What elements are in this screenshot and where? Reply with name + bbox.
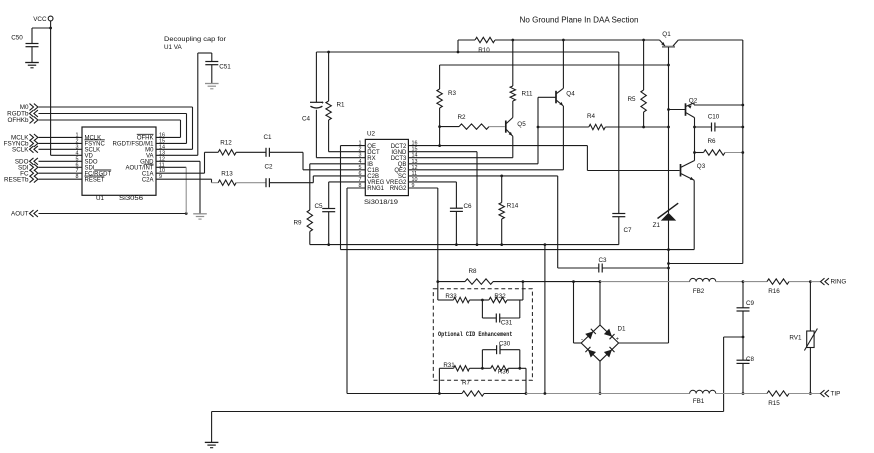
svg-text:+: + [321,101,324,107]
diode bridge D1 [581,325,618,361]
wire Q2 base [669,109,686,111]
svg-text:VREG: VREG [367,180,384,186]
svg-text:R11: R11 [521,91,533,98]
wire U2 pin4 IB to R9 [310,163,366,165]
wire RGDTb to U1 pin15 [39,113,187,115]
svg-text:-: - [581,337,583,343]
svg-text:C10: C10 [708,114,720,121]
ferrite bead FB2 [690,278,716,281]
capacitor C6 [450,207,463,209]
resistor R8 [438,281,465,283]
ground below C51 [205,83,219,85]
resistor R13 [218,180,236,185]
wire IGND riser to TIP line [544,245,546,394]
svg-text:R9: R9 [293,219,302,226]
svg-text:C3: C3 [598,257,607,264]
node C9/C8 midpoint to ground return [742,336,745,339]
svg-text:R8: R8 [468,268,477,275]
wire R15 to TIP [789,393,821,395]
wire top node RX/DCT to C7 [316,51,618,53]
wire RNG2 riser to R33 [437,282,439,300]
svg-text:VREG2: VREG2 [386,180,407,186]
node VCC/C50 junction [49,27,52,30]
svg-text:C30: C30 [499,340,511,347]
svg-text:R5: R5 [627,96,636,103]
resistor R7 [347,393,439,395]
resistor R9 [307,210,312,232]
svg-text:RING: RING [831,278,847,285]
wire R6 net to riser junction [669,263,743,265]
svg-text:VCC: VCC [33,16,47,23]
svg-text:FB1: FB1 [693,398,705,405]
svg-text:R1: R1 [336,102,345,109]
wire R12 to C1 [236,151,266,153]
svg-text:R15: R15 [768,400,780,407]
bridge diode bottom-right [604,350,612,358]
svg-text:C7: C7 [623,227,632,234]
power rail VCC terminal [48,16,53,21]
transistor Q3 [680,164,682,177]
svg-text:Decoupling cap for: Decoupling cap for [164,36,226,43]
wire U2 pin11 SC to C3 [408,175,557,177]
svg-text:DCT3: DCT3 [391,156,407,162]
svg-text:OFHKb: OFHKb [8,117,29,124]
wire Z1 down to bridge right riser [668,220,670,343]
wire U1 pin11 AOUT/INT down [156,166,186,168]
capacitor C50 [26,43,39,45]
svg-text:Q5: Q5 [517,121,526,128]
svg-text:R31: R31 [443,362,455,369]
svg-text:AOUT: AOUT [11,211,29,218]
capacitor C8 [742,337,744,360]
wire bridge top riser [599,282,601,325]
capacitor C4 polarized [310,101,323,103]
varistor RV1 [809,282,811,331]
resistor R15 [767,391,789,396]
svg-text:C5: C5 [314,203,323,210]
capacitor C1 [265,148,267,157]
capacitor C5 [322,208,335,210]
wire U2 pin3 RX to C4 [316,157,365,159]
svg-text:SCLK: SCLK [12,147,29,154]
svg-text:QE: QE [367,144,376,150]
wire line B QE net [341,249,695,251]
wire MCLK to pin1 [39,136,83,138]
Q2 emitter [686,113,695,118]
svg-text:U1: U1 [96,195,105,202]
svg-text:R12: R12 [220,140,232,147]
Q2 collector [686,103,694,107]
wire FC to pin7 [39,172,83,174]
svg-text:Q1: Q1 [662,31,671,38]
wire SCLK to pin3 [39,148,83,150]
zener diode Z1 [661,213,676,221]
capacitor C2 [265,178,267,187]
Q4 collector to rail [557,88,564,93]
wire SDI to pin6 [39,166,83,168]
svg-text:Q2: Q2 [689,98,698,105]
svg-text:RNG1: RNG1 [367,186,384,192]
svg-text:RESETb: RESETb [4,176,29,183]
svg-text:Q3: Q3 [697,163,706,170]
svg-text:C50: C50 [11,35,23,42]
capacitor C10 [695,126,712,128]
wire Q5 emitter down [512,136,514,158]
svg-text:C2A: C2A [142,177,154,183]
svg-text:Si3056: Si3056 [119,195,144,202]
wire AOUT line [39,213,187,215]
resistor R1 [326,101,331,120]
wire RESETb to pin8 [39,178,83,180]
svg-text:TIP: TIP [831,390,841,397]
wire U2 pin9 RNG2 down to R8 [408,187,437,189]
wire U2 pin8 RNG1 down to R7 line [347,187,365,189]
svg-text:R30: R30 [498,369,510,376]
svg-text:Optional CID Enhancement: Optional CID Enhancement [438,331,513,338]
svg-text:C9: C9 [746,300,755,307]
resistor R2 [440,126,459,128]
wire right riser Q1 collector to R6 line [742,40,744,264]
transistor Q1 [662,46,675,48]
ground below U1 [193,213,207,215]
svg-text:C2: C2 [264,164,273,171]
wire U2 pin7 VREG to C5 [329,181,366,183]
wire R8 right riser [522,282,524,300]
wire R13 to C2 [236,182,266,184]
wire Q1 collector line to right riser [678,39,743,41]
svg-text:R3: R3 [448,90,457,97]
wire R31 left riser to R7 line [438,368,440,393]
capacitor C3 and SC net wire [558,267,599,269]
wire bridge bottom riser [599,361,601,393]
svg-text:R4: R4 [587,113,596,120]
svg-text:RNG2: RNG2 [390,186,407,192]
wire C50 branch [32,27,51,29]
wire U2 pin2 DCT to R1 [329,151,366,153]
svg-text:5: 5 [359,165,362,171]
wire U2 pin1 QE down to line B [341,145,366,147]
wire Q1 base riser down [668,47,670,206]
svg-text:Si3018/19: Si3018/19 [364,199,399,206]
wire FB2 to R16 [716,281,743,283]
svg-text:R32: R32 [494,293,506,300]
resistor R33 [438,299,454,301]
svg-text:R6: R6 [707,138,716,145]
resistor R5 [643,40,645,90]
capacitor C30 [481,350,483,369]
ground main [205,441,219,443]
wire U2 pin14 DCT3 to Q5 emitter [408,157,512,159]
wire SDO to pin5 [39,160,83,162]
capacitor C9 [742,282,744,308]
svg-text:Z1: Z1 [653,222,661,229]
capacitor C51 decoupling [198,52,212,54]
svg-text:C1: C1 [263,134,272,141]
wire Q5 collector to R11 [512,101,514,118]
transistor Q2 [685,103,687,116]
capacitor C7 [618,52,620,214]
connector RING [821,278,825,285]
wire U1 pin12 GND to ground [156,160,200,162]
capacitor C31 [481,300,483,318]
dashed box optional CID [433,289,532,381]
wire ground return from C8/C9 node [724,336,743,338]
wire U2 pin16 DCT2 to Q3 base [408,145,587,147]
resistor R4 [538,126,589,128]
svg-text:C1B: C1B [367,168,379,174]
svg-text:RESET: RESET [85,177,105,183]
svg-text:U2: U2 [367,130,376,137]
bridge diode top-left [585,331,593,339]
resistor R3 [439,65,441,89]
wire R10 left to top node [457,40,459,52]
resistor R16 [767,279,789,284]
wire OFHKb to U1 pin16 [39,119,181,121]
wire R2 to Q5 base [489,126,505,128]
Q3 collector [681,161,695,168]
svg-text:RX: RX [367,156,375,162]
Q4 emitter to QE2 [557,100,564,106]
wire bridge left riser [574,342,582,344]
wire R16 to RING [789,281,810,283]
wire VCC to U1 VD pin4 [50,21,52,155]
svg-text:+: + [616,337,619,343]
svg-text:FB2: FB2 [693,288,705,295]
ground below C50 [25,62,39,64]
resistor R10 [458,39,475,41]
wire line A IGND net [310,244,619,246]
resistor R30 [482,367,490,369]
svg-text:C51: C51 [219,64,231,71]
wire M0 to U1 pin14 [39,106,193,108]
wire U2 pin10 VREG2 to C6 [408,181,456,183]
svg-text:R33: R33 [445,293,457,300]
connector TIP [821,390,825,397]
wire U1 pin9 C2A to R13 [156,178,212,180]
wire R7 to FB1 (TIP net) [526,393,600,395]
wire U2 pin15 IGND down to line A [408,151,477,153]
svg-text:R7: R7 [462,380,471,387]
svg-text:U1 VA: U1 VA [164,44,183,51]
resistor R11 [510,86,515,101]
resistor R31 [439,367,453,369]
svg-text:R2: R2 [457,114,466,121]
wire R8 to bridge top and FB2 (RING net) [523,281,600,283]
svg-text:R14: R14 [507,202,519,209]
transistor Q4 [555,91,557,104]
svg-text:DCT2: DCT2 [391,144,407,150]
ferrite bead FB1 [690,390,716,393]
svg-text:D1: D1 [617,326,626,333]
svg-text:C31: C31 [501,319,513,326]
svg-text:R16: R16 [768,288,780,295]
transistor Q5 [505,121,507,133]
bridge diode bottom-left [588,350,596,358]
resistor R14 [501,176,503,203]
resistor R12 [218,150,236,155]
svg-text:C4: C4 [302,116,311,123]
svg-text:Q4: Q4 [566,90,575,97]
wire U2 pin12 QE2 to Q4 emitter [408,169,563,171]
wire Q4 base [538,96,556,98]
wire C1 to U2 pin5 C1B [269,151,303,153]
resistor R32 [489,297,507,302]
svg-text:C6: C6 [463,203,472,210]
wire R10 rail to Q1 [495,39,660,41]
svg-text:QE2: QE2 [394,168,407,174]
wire U1 pin13 VA stub [156,154,198,156]
wire R3 top rail [440,64,669,66]
svg-text:R10: R10 [478,47,490,54]
svg-text:R13: R13 [221,171,233,178]
IC U2 Si3018/19 body [365,139,408,195]
wire U1 pin10 C1A to R12 [156,172,205,174]
wire bridge right riser [619,342,669,344]
svg-text:No Ground Plane In DAA Section: No Ground Plane In DAA Section [520,16,639,25]
svg-text:RV1: RV1 [789,334,802,341]
wire C2 to U2 pin6 C2B [269,182,313,184]
wire U2 pin13 QB to Q4 base [408,163,538,165]
IC U1 Si3056 body [82,127,156,195]
wire R30 right riser to R7 line [525,368,527,393]
Q3 emitter [681,174,694,181]
resistor R6 [695,152,704,154]
wire FB1 to R15 [716,393,767,395]
svg-text:C8: C8 [746,356,755,363]
wire FSYNCb to pin2 [39,142,83,144]
bridge diode top-right [604,329,612,337]
wire C51 to U1 VA pin13 [197,53,199,155]
